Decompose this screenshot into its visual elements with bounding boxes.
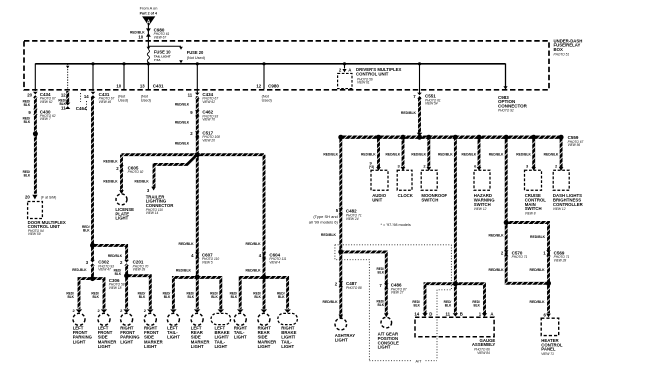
svg-text:BLK: BLK bbox=[445, 303, 452, 307]
svg-text:BLK: BLK bbox=[139, 295, 146, 299]
svg-text:14: 14 bbox=[414, 312, 419, 317]
svg-text:RED/BLK: RED/BLK bbox=[323, 300, 339, 304]
svg-text:BLK: BLK bbox=[254, 295, 261, 299]
svg-text:A: A bbox=[490, 312, 493, 317]
svg-text:13: 13 bbox=[140, 84, 145, 89]
svg-text:SWITCH: SWITCH bbox=[474, 202, 491, 207]
svg-text:VIEW 8: VIEW 8 bbox=[525, 212, 536, 216]
svg-text:10: 10 bbox=[116, 84, 121, 89]
svg-text:BLK: BLK bbox=[115, 272, 122, 276]
svg-text:VIEW 24: VIEW 24 bbox=[346, 217, 359, 221]
svg-text:LIGHT: LIGHT bbox=[335, 338, 348, 343]
svg-text:RED/BLK: RED/BLK bbox=[246, 242, 262, 246]
svg-text:RED/BLK: RED/BLK bbox=[176, 269, 192, 273]
svg-text:10: 10 bbox=[138, 35, 143, 40]
svg-text:RED-BLK: RED-BLK bbox=[72, 268, 87, 272]
svg-text:BLK: BLK bbox=[67, 295, 74, 299]
svg-text:PHOTO 92: PHOTO 92 bbox=[498, 109, 514, 113]
svg-text:VIEW 5: VIEW 5 bbox=[202, 260, 213, 264]
svg-text:PHOTO 71: PHOTO 71 bbox=[512, 255, 528, 259]
svg-text:11: 11 bbox=[445, 312, 450, 317]
svg-text:(F at S/M): (F at S/M) bbox=[41, 196, 57, 200]
svg-text:RED/BLK: RED/BLK bbox=[544, 152, 559, 156]
svg-text:LIGHT: LIGHT bbox=[191, 344, 204, 349]
svg-text:C431: C431 bbox=[153, 84, 164, 89]
svg-text:VIEW 62: VIEW 62 bbox=[202, 100, 215, 104]
svg-text:BLK: BLK bbox=[164, 295, 171, 299]
svg-text:11: 11 bbox=[61, 106, 66, 111]
svg-text:VIEW 39: VIEW 39 bbox=[133, 268, 146, 272]
svg-text:RED/BLK: RED/BLK bbox=[530, 300, 546, 304]
svg-text:RED/BLK: RED/BLK bbox=[489, 152, 504, 156]
svg-text:C980: C980 bbox=[268, 84, 279, 89]
svg-text:RED/BLK: RED/BLK bbox=[179, 242, 195, 246]
svg-text:VIEW 28: VIEW 28 bbox=[554, 258, 567, 262]
svg-text:BOX: BOX bbox=[554, 47, 563, 52]
svg-text:BLK: BLK bbox=[378, 270, 385, 274]
svg-text:12: 12 bbox=[61, 92, 66, 97]
svg-text:Used): Used) bbox=[262, 99, 273, 103]
svg-text:VIEW 84: VIEW 84 bbox=[477, 351, 490, 355]
svg-text:RED/BLK: RED/BLK bbox=[135, 180, 150, 184]
svg-text:RED/BLK: RED/BLK bbox=[103, 160, 118, 164]
svg-text:RED/BLK: RED/BLK bbox=[401, 111, 417, 115]
svg-text:PHOTO 51: PHOTO 51 bbox=[554, 53, 570, 57]
svg-text:BLK: BLK bbox=[231, 295, 238, 299]
svg-text:RED/BLK: RED/BLK bbox=[438, 152, 453, 156]
svg-text:VIEW 4: VIEW 4 bbox=[269, 260, 280, 264]
svg-text:RED/BLK: RED/BLK bbox=[103, 180, 118, 184]
svg-text:RED/BLK: RED/BLK bbox=[361, 152, 376, 156]
svg-text:FUSE 20: FUSE 20 bbox=[187, 50, 204, 55]
svg-text:VIEW 56: VIEW 56 bbox=[568, 143, 581, 147]
svg-text:7.5A: 7.5A bbox=[154, 58, 161, 62]
svg-text:LIGHT: LIGHT bbox=[215, 344, 228, 349]
svg-text:RED/BLK: RED/BLK bbox=[175, 121, 190, 125]
svg-text:LIGHT: LIGHT bbox=[167, 335, 180, 340]
svg-text:LIGHT: LIGHT bbox=[258, 344, 271, 349]
svg-text:VIEW 54: VIEW 54 bbox=[425, 102, 438, 106]
svg-text:VIEW 46: VIEW 46 bbox=[99, 100, 112, 104]
svg-text:Used): Used) bbox=[141, 99, 152, 103]
svg-text:RED/BLK: RED/BLK bbox=[175, 102, 190, 106]
svg-text:(Not Used): (Not Used) bbox=[187, 56, 206, 60]
svg-text:RED/BLK: RED/BLK bbox=[489, 268, 505, 272]
svg-text:BLK: BLK bbox=[188, 295, 195, 299]
svg-text:CONTROLLER: CONTROLLER bbox=[553, 202, 584, 207]
svg-text:VIEW 27: VIEW 27 bbox=[391, 291, 404, 295]
svg-text:VIEW 12: VIEW 12 bbox=[553, 207, 566, 211]
svg-text:B: B bbox=[460, 312, 463, 317]
svg-text:VIEW 67: VIEW 67 bbox=[154, 35, 167, 39]
svg-text:PANEL: PANEL bbox=[541, 347, 556, 352]
svg-text:all '99 models 6): all '99 models 6) bbox=[309, 219, 339, 224]
svg-text:12: 12 bbox=[256, 84, 261, 89]
svg-text:RED/BLK: RED/BLK bbox=[175, 142, 190, 146]
svg-text:BLK: BLK bbox=[211, 295, 218, 299]
svg-text:RED/BLK: RED/BLK bbox=[323, 152, 338, 156]
svg-text:VIEW 7: VIEW 7 bbox=[40, 117, 51, 121]
svg-text:A/T: A/T bbox=[416, 360, 423, 364]
svg-text:RED/BLK: RED/BLK bbox=[516, 152, 531, 156]
svg-text:LIGHT: LIGHT bbox=[98, 344, 111, 349]
svg-text:RED/BLK: RED/BLK bbox=[462, 152, 477, 156]
svg-text:RED/BLK: RED/BLK bbox=[530, 235, 546, 239]
svg-text:BLK: BLK bbox=[378, 303, 385, 307]
svg-text:BLK: BLK bbox=[473, 303, 480, 307]
svg-text:RED/BLK: RED/BLK bbox=[108, 254, 123, 258]
svg-text:BLK: BLK bbox=[24, 103, 31, 107]
svg-text:VIEW 71: VIEW 71 bbox=[541, 352, 554, 356]
svg-text:LIGHT: LIGHT bbox=[234, 335, 247, 340]
svg-text:BLK: BLK bbox=[24, 174, 31, 178]
svg-text:Used): Used) bbox=[118, 99, 129, 103]
svg-text:C464: C464 bbox=[76, 106, 87, 111]
svg-text:VIEW 70: VIEW 70 bbox=[202, 118, 215, 122]
svg-text:D: D bbox=[429, 312, 432, 317]
svg-text:SWITCH: SWITCH bbox=[525, 206, 542, 211]
svg-text:CLOCK: CLOCK bbox=[398, 193, 414, 198]
svg-text:LIGHT: LIGHT bbox=[378, 345, 391, 350]
svg-text:VIEW 12: VIEW 12 bbox=[474, 207, 487, 211]
svg-text:LIGHT: LIGHT bbox=[144, 344, 157, 349]
svg-text:* = '97-'98 models: * = '97-'98 models bbox=[381, 223, 411, 227]
svg-text:BLK: BLK bbox=[413, 303, 420, 307]
svg-text:20: 20 bbox=[25, 195, 30, 200]
svg-text:A: A bbox=[348, 68, 351, 73]
svg-text:BLK: BLK bbox=[83, 228, 90, 232]
svg-text:UNIT: UNIT bbox=[372, 198, 382, 203]
svg-text:PHOTO 88: PHOTO 88 bbox=[346, 286, 362, 290]
svg-text:LIGHT: LIGHT bbox=[281, 344, 294, 349]
svg-text:LIGHT: LIGHT bbox=[73, 339, 86, 344]
svg-text:BLK: BLK bbox=[92, 295, 99, 299]
svg-text:20: 20 bbox=[27, 92, 32, 97]
svg-text:LIGHT: LIGHT bbox=[120, 339, 133, 344]
svg-text:VIEW 59: VIEW 59 bbox=[28, 232, 41, 236]
svg-text:RED/BLK: RED/BLK bbox=[489, 234, 505, 238]
svg-text:A: A bbox=[147, 19, 151, 25]
svg-text:11: 11 bbox=[188, 92, 193, 97]
svg-text:BLK: BLK bbox=[278, 295, 285, 299]
svg-text:VIEW 61: VIEW 61 bbox=[357, 81, 370, 85]
svg-text:LIGHT: LIGHT bbox=[115, 216, 128, 221]
svg-text:SWITCH: SWITCH bbox=[421, 198, 438, 203]
svg-text:(*3): (*3) bbox=[369, 165, 374, 169]
svg-text:From A on: From A on bbox=[140, 6, 158, 11]
svg-text:BLK: BLK bbox=[24, 120, 31, 124]
svg-text:RED/BLK: RED/BLK bbox=[321, 233, 337, 237]
svg-text:ASSEMBLY: ASSEMBLY bbox=[472, 342, 496, 347]
svg-text:VIEW 14: VIEW 14 bbox=[146, 211, 159, 215]
svg-text:VIEW 18: VIEW 18 bbox=[109, 286, 122, 290]
svg-text:PHOTO 92: PHOTO 92 bbox=[128, 170, 144, 174]
svg-text:CONTROL UNIT: CONTROL UNIT bbox=[356, 72, 389, 77]
svg-text:RED/BLK: RED/BLK bbox=[411, 152, 426, 156]
svg-text:VIEW 20: VIEW 20 bbox=[202, 138, 215, 142]
svg-text:VIEW 62: VIEW 62 bbox=[40, 100, 53, 104]
svg-text:RED/BLK: RED/BLK bbox=[246, 269, 262, 273]
svg-text:VIEW 47: VIEW 47 bbox=[98, 268, 111, 272]
svg-text:Part 2 of 4: Part 2 of 4 bbox=[140, 11, 157, 15]
svg-text:14: 14 bbox=[84, 94, 89, 99]
svg-text:RED/BLK: RED/BLK bbox=[530, 268, 546, 272]
svg-text:RED/BLK: RED/BLK bbox=[386, 152, 401, 156]
